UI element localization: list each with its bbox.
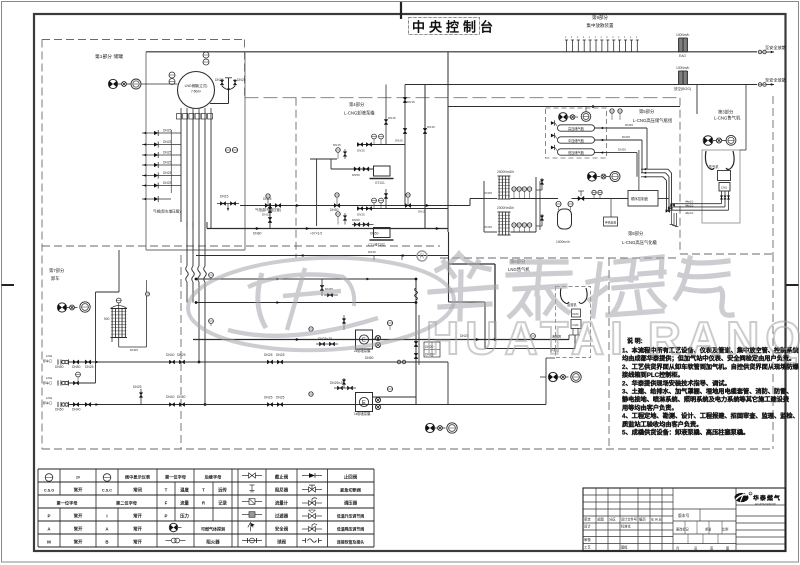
dispenser leg lines	[572, 329, 574, 336]
svg-text:设计文件号: 设计文件号	[621, 517, 637, 522]
bottom bank row	[142, 198, 171, 200]
rack top valve group	[559, 113, 568, 122]
skid trio instruments	[587, 172, 596, 181]
svg-text:P: P	[165, 513, 168, 518]
svg-text:阀中显示仪表: 阀中显示仪表	[125, 473, 151, 480]
svg-text:接线箱到PLC控制柜。: 接线箱到PLC控制柜。	[622, 371, 684, 379]
recondenser inlet pipe from above	[118, 250, 120, 292]
svg-text:第7部分: 第7部分	[49, 267, 65, 274]
svg-text:常开: 常开	[74, 512, 83, 519]
svg-text:止回阀: 止回阀	[344, 473, 358, 480]
gas line jog to vaporizer	[469, 199, 471, 206]
vaporizer B outlet gauges	[512, 223, 516, 227]
svg-text:放空(BOG): 放空(BOG)	[674, 86, 691, 91]
svg-text:DN25: DN25	[130, 348, 138, 352]
svg-text:调压器: 调压器	[344, 499, 358, 506]
vaporizer outlet header	[511, 198, 537, 200]
valve cluster on gas line B	[334, 203, 340, 207]
svg-text:质监站工验收均由客户负责。: 质监站工验收均由客户负责。	[622, 420, 702, 428]
svg-text:第1部分 储罐: 第1部分 储罐	[95, 53, 123, 60]
top centre fold mark	[400, 2, 402, 19]
svg-text:常开: 常开	[133, 525, 142, 532]
svg-text:中央控制台: 中央控制台	[412, 20, 497, 35]
svg-text:DN25: DN25	[133, 385, 142, 389]
cryo pump B GT102	[374, 228, 391, 238]
tank left valve bank	[170, 130, 172, 193]
svg-text:DN15: DN15	[427, 125, 435, 129]
vaporizer A outlet gauges	[512, 187, 516, 191]
watermark ellipse logo	[186, 253, 455, 354]
gas phase line	[240, 205, 470, 207]
svg-text:静电接地、喷淋系统、照明系统及电力系统等其它施工建设费: 静电接地、喷淋系统、照明系统及电力系统等其它施工建设费	[622, 396, 790, 404]
svg-text:卸车口: 卸车口	[43, 380, 52, 385]
heat trace unit 伴热装置	[604, 217, 618, 226]
LP storage cylinder	[558, 149, 595, 155]
LNG dispenser dashed enclosure	[556, 287, 591, 358]
tank top instrument bubbles	[169, 72, 175, 78]
vaporizer drain line	[539, 181, 541, 230]
unloading trio instruments	[57, 303, 66, 312]
svg-text:卸车: 卸车	[51, 275, 60, 282]
svg-text:DN25: DN25	[264, 353, 273, 357]
svg-text:DN25: DN25	[395, 139, 403, 143]
svg-text:低压储气瓶: 低压储气瓶	[568, 150, 585, 155]
svg-text:分区: 分区	[609, 517, 616, 522]
svg-text:DN25: DN25	[163, 129, 172, 133]
vent line into bottle area	[696, 85, 698, 115]
downcomers continue to headers	[186, 282, 188, 303]
svg-text:DN25: DN25	[163, 161, 172, 165]
gas return riser	[404, 85, 406, 206]
recirculation line lower	[196, 302, 416, 304]
svg-text:P: P	[48, 513, 51, 518]
svg-text:用等均由客户负责。: 用等均由客户负责。	[621, 404, 678, 412]
svg-text:L-CNG卸液泵橇: L-CNG卸液泵橇	[344, 110, 375, 117]
dispenser riser elbows with valves	[721, 195, 723, 204]
svg-text:2、华泰提供现场安装技术指导、调试。: 2、华泰提供现场安装技术指导、调试。	[622, 379, 731, 387]
svg-text:第二位字母: 第二位字母	[116, 499, 138, 506]
vaporizer inlet bus	[483, 181, 485, 232]
watermark characters 华泰燃气	[430, 254, 732, 319]
valve riser right of bank	[269, 203, 271, 229]
pump A discharge header	[357, 144, 405, 146]
svg-text:DN25: DN25	[163, 181, 172, 185]
svg-text:安全阀: 安全阀	[275, 525, 289, 532]
high pressure vaporizer A	[498, 175, 511, 177]
svg-text:月: 月	[676, 547, 679, 551]
svg-text:常闭: 常闭	[133, 486, 142, 493]
bundle lower bends with valves	[671, 204, 675, 207]
CNG dispenser cabinet	[702, 150, 740, 223]
vent stack BOG	[678, 71, 680, 85]
recondenser outlet loop	[111, 338, 113, 343]
svg-text:CNG: CNG	[721, 186, 727, 190]
svg-text:DN25: DN25	[357, 149, 365, 153]
svg-text:E: E	[362, 338, 366, 344]
svg-text:2000Nm3/h: 2000Nm3/h	[497, 170, 514, 174]
svg-text:卸车口: 卸车口	[43, 358, 52, 363]
svg-text:L-CNG高压储气瓶组: L-CNG高压储气瓶组	[633, 117, 673, 124]
bottle rack dashed enclosure	[546, 108, 607, 158]
svg-text:2#: 2#	[76, 475, 80, 479]
svg-text:DN25: DN25	[357, 213, 365, 217]
svg-text:比例: 比例	[722, 527, 728, 532]
svg-text:DN25: DN25	[177, 353, 186, 357]
bottom area trio instruments	[425, 423, 434, 432]
vent collection comb 集中放散	[566, 40, 568, 52]
svg-text:第8部分: 第8部分	[628, 230, 644, 237]
priority control panel 顺序控制盘	[628, 191, 658, 207]
legend table grid	[38, 468, 374, 470]
svg-text:3、土建、给排水、加气罩棚、埋地用电缆套管、消防、防雷、: 3、土建、给排水、加气罩棚、埋地用电缆套管、消防、防雷、	[622, 388, 793, 396]
svg-text:更改标记: 更改标记	[676, 527, 690, 532]
svg-text:常开: 常开	[74, 486, 83, 493]
svg-text:4#p10: 4#p10	[685, 211, 694, 215]
small riser with valve on line3	[140, 389, 142, 405]
svg-text:DN25: DN25	[215, 78, 224, 82]
tank outlet vertical pipes	[180, 108, 182, 119]
svg-text:100Nm/h: 100Nm/h	[676, 33, 690, 37]
svg-text:LNG储罐(立式): LNG储罐(立式)	[185, 83, 208, 88]
svg-text:2000Nm3/h: 2000Nm3/h	[497, 206, 514, 210]
left centre fold mark	[2, 284, 15, 286]
svg-text:阻尼器: 阻尼器	[275, 486, 289, 493]
svg-text:华泰燃气: 华泰燃气	[753, 494, 781, 502]
svg-text:常开: 常开	[133, 512, 142, 519]
svg-text:常开: 常开	[133, 538, 142, 545]
svg-text:标准化: 标准化	[621, 524, 631, 529]
tank gauge pair right	[225, 147, 230, 152]
svg-text:GT101: GT101	[375, 181, 385, 185]
svg-text:LNG: LNG	[46, 354, 53, 358]
dispenser internal unit CNG	[719, 183, 730, 192]
priority panel three lines with arrows	[636, 153, 638, 177]
pump A suction line	[331, 168, 374, 170]
actuated valve on product line	[578, 196, 584, 201]
line1 flange pair	[397, 360, 401, 364]
small risers on gas return line	[373, 256, 375, 261]
title block outer	[583, 488, 786, 551]
LNG storage tank vessel circle	[178, 72, 215, 109]
svg-text:第一位字母: 第一位字母	[165, 473, 187, 480]
svg-text:过滤器: 过滤器	[275, 512, 289, 519]
svg-text:至安全放散: 至安全放散	[765, 44, 787, 51]
svg-text:球阀: 球阀	[277, 538, 286, 545]
pump B discharge gauges	[372, 198, 377, 203]
product line to priority panel	[572, 198, 629, 200]
buffer vessel	[558, 209, 572, 229]
CNG product path to LNG dispenser	[448, 232, 450, 302]
recycle riser with valve	[423, 128, 427, 133]
cylinder isolation valves	[551, 121, 555, 125]
suction line vertical to pump1	[316, 315, 318, 340]
svg-text:B: B	[105, 539, 108, 544]
pump B discharge header	[357, 208, 449, 210]
svg-text:DN80: DN80	[253, 232, 262, 236]
svg-text:+07×3.5: +07×3.5	[310, 232, 322, 236]
vent outlet symbol lower	[758, 83, 762, 87]
high pressure vaporizer B	[498, 211, 511, 213]
tank vent riser	[424, 85, 426, 229]
svg-text:DN50: DN50	[370, 232, 379, 236]
product line gauges	[592, 190, 596, 194]
svg-text:DN40: DN40	[72, 408, 81, 412]
svg-text:第3部分: 第3部分	[718, 109, 734, 116]
svg-text:集中放散装置: 集中放散装置	[587, 22, 614, 29]
legend row1 symbols and headers	[45, 474, 53, 482]
svg-text:DN50: DN50	[55, 365, 64, 369]
drawing title 中央控制台	[409, 18, 480, 35]
dispenser internal unit box2	[718, 171, 731, 181]
svg-text:阻火器: 阻火器	[206, 538, 220, 545]
tank pipes continue to lower section	[186, 222, 188, 266]
pump A relief riser to vent header	[385, 85, 387, 145]
LNG liquid line to dispenser	[193, 339, 569, 341]
svg-text:EAG: EAG	[679, 54, 686, 58]
extra valve cluster line1	[267, 360, 272, 364]
safety valve outlet pipe to tank	[228, 92, 230, 104]
buffer vessel top gauges	[556, 201, 561, 206]
title block left grid rows	[583, 494, 673, 496]
svg-text:编页: 编页	[639, 517, 646, 522]
title block left grid verticals	[595, 488, 597, 551]
title block right rows	[736, 504, 786, 506]
feed line drain stubs	[671, 207, 673, 225]
svg-text:低温升压调节阀: 低温升压调节阀	[336, 513, 364, 518]
svg-text:DN15: DN15	[418, 210, 426, 214]
pump suction risers	[316, 159, 318, 226]
return connection line	[545, 358, 547, 405]
svg-text:至安全放散: 至安全放散	[765, 77, 787, 84]
tank nozzle boxes	[177, 114, 182, 120]
svg-text:4#p10: 4#p10	[685, 203, 694, 207]
svg-text:工艺: 工艺	[584, 545, 591, 550]
svg-text:气相(卸车增压管): 气相(卸车增压管)	[255, 207, 281, 212]
svg-text:I: I	[106, 513, 107, 518]
expansion coil on distribution vertical	[415, 288, 418, 300]
connection tank lines to main line	[186, 222, 188, 229]
dispenser hoses	[705, 151, 714, 170]
svg-text:记录: 记录	[218, 499, 227, 506]
svg-text:第9部分: 第9部分	[592, 14, 609, 21]
vent header pipe to atmosphere lower	[405, 84, 757, 86]
cross connect verticals	[416, 361, 419, 363]
svg-text:DN15: DN15	[407, 100, 415, 104]
svg-text:截止阀: 截止阀	[275, 473, 289, 480]
vent header pipe to atmosphere upper	[146, 51, 757, 53]
dispenser inlet trio	[703, 136, 713, 146]
valve cluster on gas line C	[405, 203, 411, 207]
cryo pump A GT101	[374, 166, 391, 176]
valves on middle vertical	[414, 341, 418, 346]
valve cluster on gas line A	[265, 203, 271, 207]
svg-text:总图: 总图	[597, 517, 604, 522]
recirculation line upper	[196, 278, 416, 280]
pump skid 1# box	[356, 393, 373, 412]
svg-text:连接软管及接头: 连接软管及接头	[337, 539, 364, 544]
liquid phase main line to pumps	[207, 228, 448, 230]
svg-text:顺序控制盘: 顺序控制盘	[631, 196, 649, 201]
svg-text:气相(卸车增压管): 气相(卸车增压管)	[153, 209, 181, 214]
svg-text:C.S.C: C.S.C	[102, 488, 112, 492]
svg-text:图: 图	[726, 547, 729, 551]
pump skid 2# box	[356, 330, 373, 349]
svg-text:DN25: DN25	[264, 396, 273, 400]
svg-text:温度: 温度	[180, 486, 189, 493]
svg-text:HUATAI RANQI: HUATAI RANQI	[426, 312, 800, 364]
svg-text:DN25: DN25	[625, 123, 633, 127]
svg-text:DN25×25: DN25×25	[318, 337, 332, 341]
svg-text:F: F	[165, 500, 168, 505]
svg-text:伴热装置: 伴热装置	[605, 221, 616, 225]
svg-text:DN25: DN25	[163, 151, 172, 155]
pump2 inlet valve cluster	[319, 342, 324, 346]
svg-text:C.S.O: C.S.O	[44, 488, 54, 492]
LNG dispenser hoses	[560, 288, 569, 304]
svg-text:第一位字母: 第一位字母	[57, 499, 79, 506]
junction dots	[195, 278, 198, 281]
parallel vertical pipe	[418, 315, 420, 365]
svg-text:DN15: DN15	[333, 143, 341, 147]
svg-text:T: T	[165, 487, 168, 492]
svg-text:旧: 旧	[694, 546, 697, 551]
svg-text:DN40: DN40	[368, 250, 376, 254]
HP storage cylinder	[558, 125, 595, 131]
svg-text:DN50: DN50	[55, 408, 64, 412]
svg-text:M: M	[47, 539, 51, 544]
svg-text:第5部分: 第5部分	[639, 108, 655, 115]
watermark registered mark	[417, 251, 427, 261]
svg-text:R: R	[420, 254, 425, 261]
svg-text:500: 500	[104, 317, 110, 321]
pump1 inlet valve cluster	[337, 386, 342, 390]
svg-text:紧急切断阀: 紧急切断阀	[340, 486, 361, 493]
svg-text:卸车口: 卸车口	[43, 400, 52, 405]
manifold vent riser	[447, 52, 449, 232]
svg-text:流量: 流量	[180, 499, 189, 506]
vent outlet symbol upper	[758, 50, 762, 54]
BOG recondenser finned column	[111, 308, 128, 310]
cylinder discharge lines to bus	[595, 127, 648, 129]
LNG dispenser DCM box	[572, 309, 581, 317]
svg-text:DN25: DN25	[163, 171, 172, 175]
svg-text:4、工程定地、勘测、设计、工程报建、招固审查、监理、监检、: 4、工程定地、勘测、设计、工程报建、招固审查、监理、监检、	[622, 412, 799, 420]
svg-text:L-CNG高压气化橇: L-CNG高压气化橇	[622, 239, 658, 246]
dispenser vertical risers	[568, 335, 570, 340]
right centre fold mark	[786, 284, 799, 286]
svg-text:2、工艺供货界面从卸车软管到加气机。自控供货界面从现场防爆: 2、工艺供货界面从卸车软管到加气机。自控供货界面从现场防爆	[622, 363, 800, 371]
svg-text:设计: 设计	[584, 524, 591, 529]
svg-text:DN25: DN25	[276, 396, 285, 400]
gauge stems on bottle feed	[610, 109, 614, 113]
svg-text:DN40: DN40	[166, 353, 175, 357]
valve clusters on downcomer lines	[169, 360, 174, 364]
LNG dispenser FGM box	[571, 320, 581, 329]
svg-text:DN15: DN15	[220, 195, 229, 199]
svg-text:DN25: DN25	[85, 365, 94, 369]
safety relief valves on header	[541, 178, 543, 190]
svg-text:后继字母: 后继字母	[205, 473, 223, 480]
svg-text:LNG: LNG	[46, 396, 53, 400]
pump B relief riser	[385, 189, 387, 209]
svg-text:中压储气瓶: 中压储气瓶	[568, 138, 585, 143]
extra valve cluster line3	[267, 402, 272, 406]
middle distribution vertical	[415, 279, 417, 405]
svg-text:DN50: DN50	[352, 173, 360, 177]
pump A inlet valve cluster	[354, 167, 360, 171]
svg-text:流量计: 流量计	[275, 499, 289, 506]
pump1 discharge to distribution	[373, 396, 417, 398]
svg-text:T: T	[202, 487, 205, 492]
pump B inlet valve cluster	[354, 222, 360, 226]
flow tag box	[424, 342, 440, 357]
svg-text:审定: 审定	[584, 517, 591, 522]
expansion loops on tank downcomers	[186, 266, 189, 282]
svg-text:审核: 审核	[584, 537, 591, 542]
svg-text:第4部分: 第4部分	[349, 101, 365, 108]
svg-text:重量: 重量	[705, 527, 712, 532]
svg-text:5、成橇供货设备：卸液泵橇、高压柱塞泵橇。: 5、成橇供货设备：卸液泵橇、高压柱塞泵橇。	[622, 429, 749, 437]
station boundary dashed box	[42, 39, 245, 41]
pump A discharge gauges	[372, 134, 377, 139]
svg-text:远传: 远传	[218, 486, 227, 493]
tank inlet compressor symbol group	[108, 79, 117, 88]
svg-text:HUATAI RANQI: HUATAI RANQI	[755, 502, 776, 506]
pump B suction line	[322, 228, 374, 230]
svg-text:DN25: DN25	[237, 78, 246, 82]
svg-text:DN50: DN50	[352, 218, 360, 222]
svg-text:E: E	[362, 400, 366, 406]
svg-text:DN25: DN25	[622, 135, 630, 139]
svg-text:年.月.日: 年.月.日	[651, 517, 662, 522]
small valve assembly below tank	[217, 203, 239, 205]
svg-text:DN25: DN25	[263, 197, 272, 201]
svg-text:DN15: DN15	[484, 225, 492, 229]
svg-text:DN25: DN25	[484, 191, 492, 195]
svg-text:版本号: 版本号	[678, 513, 690, 518]
tank section enclosure rect	[145, 52, 147, 250]
line1 continues to pump header	[196, 361, 448, 363]
svg-text:低温降压调节阀: 低温降压调节阀	[336, 526, 364, 531]
bottle rack vent riser junction	[592, 105, 595, 108]
second product path to LNG dispenser	[449, 301, 486, 303]
svg-text:图框: 图框	[621, 545, 628, 550]
vessel connection	[536, 198, 558, 200]
svg-text:可燃气体探测: 可燃气体探测	[201, 525, 225, 531]
company logo huatai	[735, 493, 749, 502]
svg-text:常开: 常开	[74, 538, 83, 545]
vent stack EAG upper	[678, 38, 680, 52]
MP storage cylinder	[558, 137, 595, 143]
svg-text:常开: 常开	[74, 525, 83, 532]
svg-text:7-50m³: 7-50m³	[191, 90, 201, 94]
svg-text:1000m³/h: 1000m³/h	[556, 240, 570, 244]
collection header above bottle rack	[448, 106, 680, 108]
return trio instruments	[548, 372, 557, 381]
svg-text:高压储气瓶: 高压储气瓶	[568, 126, 585, 131]
svg-text:DN25: DN25	[276, 353, 285, 357]
svg-text:压力: 压力	[180, 512, 189, 519]
valve cluster mid line	[320, 285, 324, 290]
LNG return line	[485, 348, 575, 350]
svg-text:DN50: DN50	[72, 365, 81, 369]
recondenser top stem	[118, 303, 120, 309]
svg-text:DN25: DN25	[163, 140, 172, 144]
svg-text:L-CNG售气机: L-CNG售气机	[714, 115, 741, 122]
svg-text:DN15: DN15	[262, 213, 270, 217]
section boundary dashed lines	[244, 40, 246, 98]
gas return line to tank	[196, 255, 449, 257]
